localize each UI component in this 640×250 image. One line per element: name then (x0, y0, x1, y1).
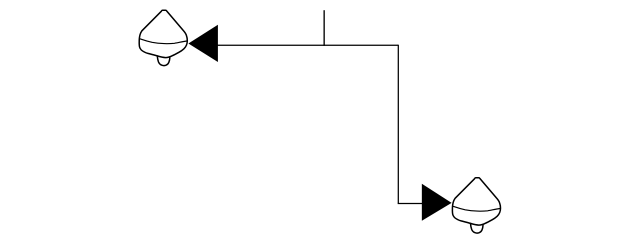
wire: vertical stub above horizontal wire (323, 10, 325, 46)
arrowhead pointing right at bottom icon (422, 184, 452, 221)
wire: bottom horizontal segment (398, 203, 423, 205)
wire: right vertical segment (397, 45, 399, 204)
node: top spinning-top icon (upper left) (139, 10, 187, 65)
arrowhead pointing left at top icon (188, 25, 218, 62)
node: bottom spinning-top icon (lower right) (452, 178, 500, 233)
wire: top horizontal segment (218, 44, 399, 46)
